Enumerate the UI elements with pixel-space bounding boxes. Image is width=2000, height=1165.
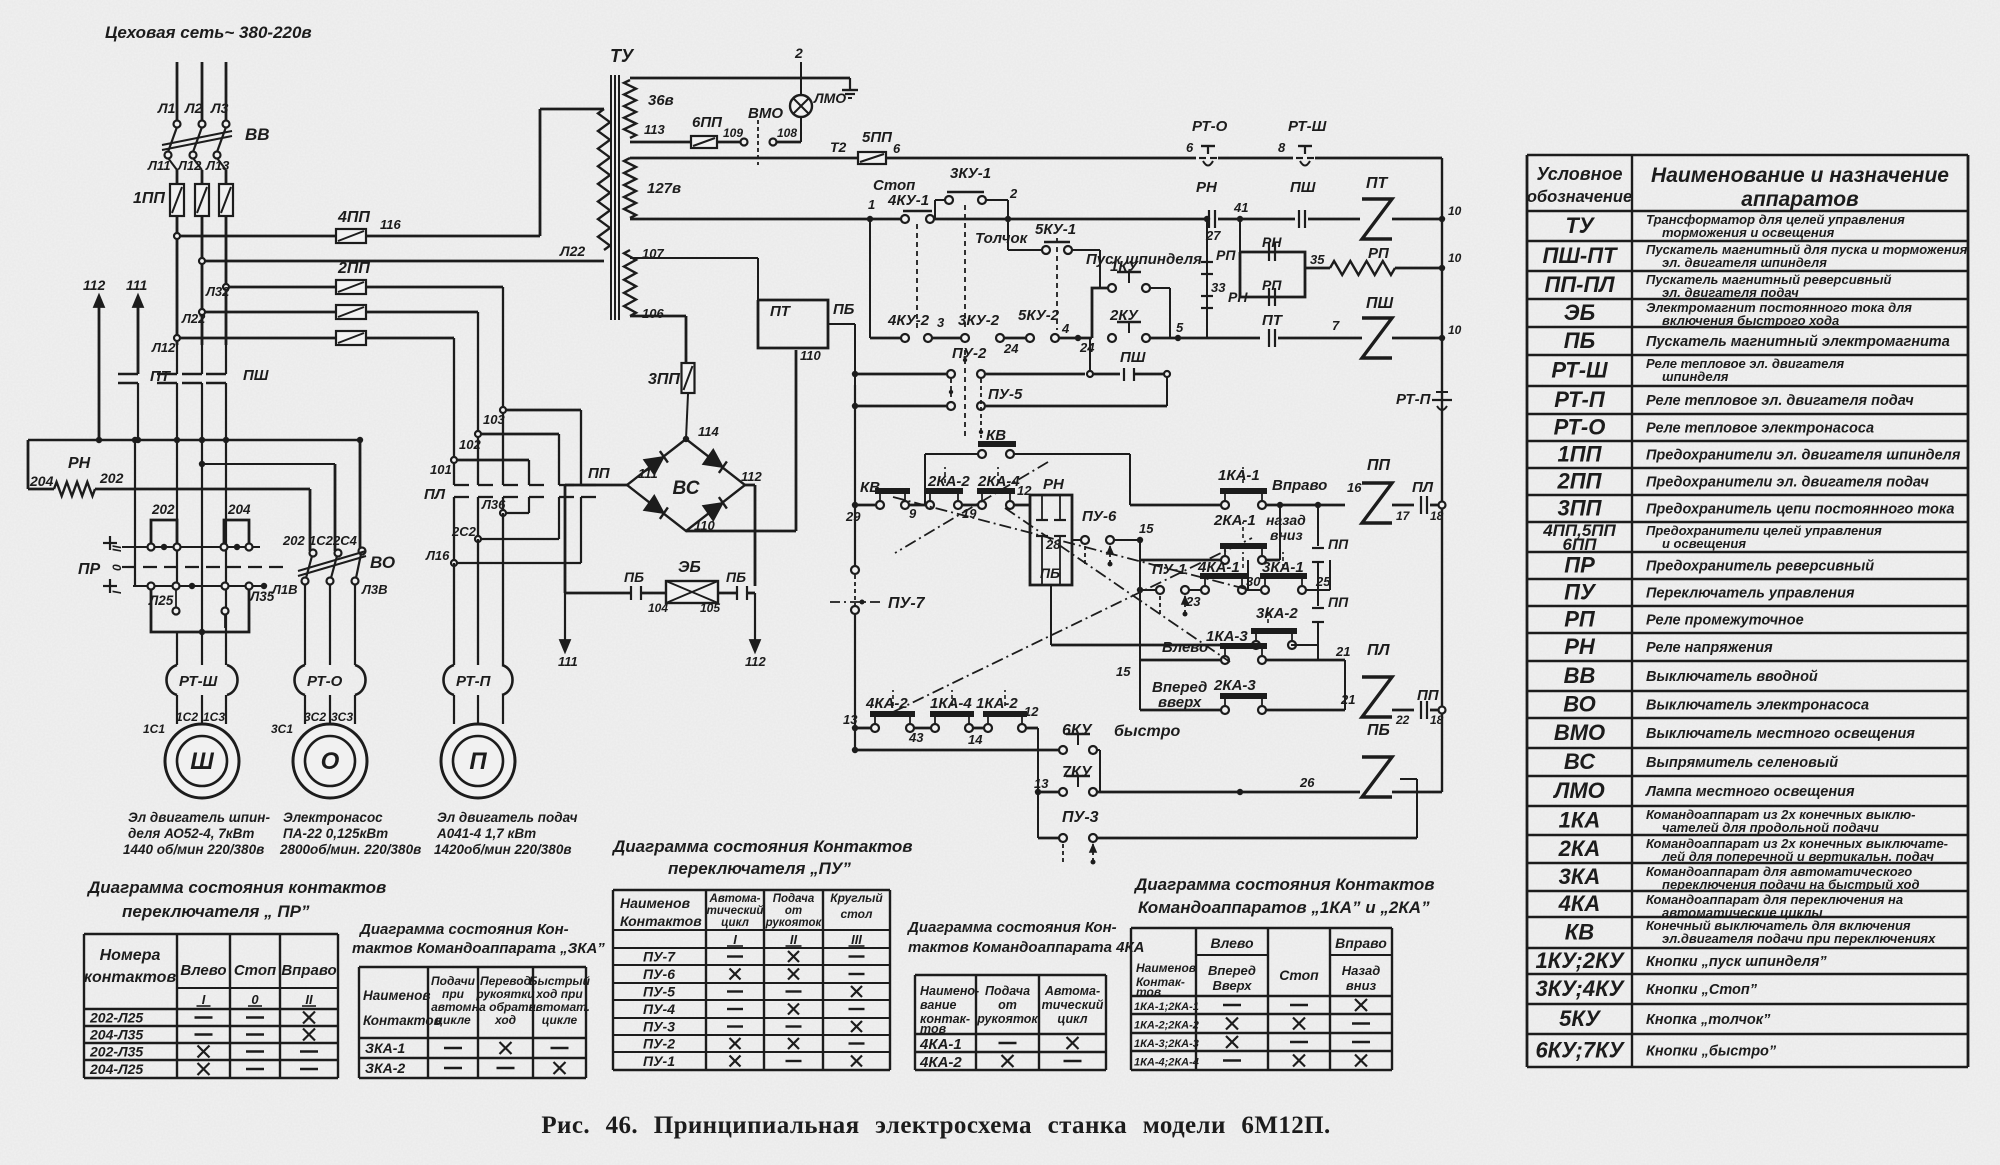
- svg-text:РТ-П: РТ-П: [1554, 387, 1606, 412]
- svg-text:43: 43: [908, 730, 924, 745]
- svg-text:Быстрый: Быстрый: [529, 974, 591, 988]
- svg-text:Л11: Л11: [147, 158, 170, 173]
- svg-text:204-Л25: 204-Л25: [89, 1061, 143, 1077]
- svg-text:переключателя „ПУ”: переключателя „ПУ”: [668, 859, 851, 878]
- svg-text:17: 17: [1396, 509, 1411, 523]
- svg-text:ПА-22 0,125кВт: ПА-22 0,125кВт: [283, 826, 388, 841]
- svg-text:1КА-1: 1КА-1: [1218, 467, 1260, 484]
- svg-text:назад: назад: [1266, 512, 1306, 528]
- svg-text:202: 202: [282, 533, 305, 548]
- svg-text:тический: тический: [1042, 998, 1104, 1012]
- svg-text:ВО: ВО: [1563, 692, 1595, 717]
- svg-text:стол: стол: [841, 907, 874, 921]
- svg-text:Предохранители эл. двигателя: Предохранители эл. двигателя подач: [1646, 475, 1929, 491]
- svg-text:I: I: [202, 992, 206, 1007]
- svg-text:112: 112: [745, 654, 766, 669]
- svg-text:Контактов: Контактов: [620, 913, 702, 929]
- svg-text:рукояток: рукояток: [765, 917, 823, 929]
- svg-text:ПП: ПП: [588, 465, 611, 482]
- svg-text:ПШ-ПТ: ПШ-ПТ: [1543, 243, 1619, 268]
- svg-text:1КА: 1КА: [1559, 808, 1601, 833]
- svg-text:ПУ-4: ПУ-4: [643, 1001, 675, 1017]
- svg-text:Стоп: Стоп: [234, 962, 276, 979]
- svg-text:204: 204: [29, 473, 54, 489]
- svg-text:РТ-О: РТ-О: [1192, 118, 1228, 135]
- svg-text:Наименование и назначение: Наименование и назначение: [1651, 164, 1949, 187]
- svg-text:1С3: 1С3: [203, 710, 225, 724]
- svg-text:ПУ-6: ПУ-6: [643, 966, 675, 982]
- svg-text:5: 5: [1176, 320, 1184, 335]
- svg-text:РН: РН: [1043, 476, 1065, 493]
- svg-text:II: II: [790, 932, 798, 947]
- svg-text:ЗКА-2: ЗКА-2: [365, 1060, 405, 1076]
- svg-text:3КА: 3КА: [1559, 864, 1601, 889]
- svg-text:0: 0: [251, 992, 259, 1007]
- svg-text:1С2: 1С2: [309, 533, 334, 548]
- svg-text:Выключатель электронасоса: Выключатель электронасоса: [1646, 698, 1869, 714]
- svg-text:Подача: Подача: [773, 893, 815, 905]
- svg-text:111: 111: [126, 277, 147, 293]
- svg-text:114: 114: [698, 424, 719, 439]
- svg-text:Переключатель управления: Переключатель управления: [1646, 586, 1855, 602]
- svg-text:при: при: [442, 987, 465, 1001]
- svg-text:21: 21: [1340, 692, 1355, 707]
- svg-text:2ПП: 2ПП: [337, 260, 370, 277]
- svg-text:ПУ-6: ПУ-6: [1082, 508, 1117, 525]
- svg-text:7: 7: [1332, 318, 1340, 333]
- svg-text:27: 27: [1205, 228, 1221, 243]
- svg-text:Кнопка „толчок”: Кнопка „толчок”: [1646, 1012, 1771, 1028]
- svg-text:ПУ-3: ПУ-3: [643, 1019, 675, 1035]
- svg-text:вание: вание: [920, 998, 957, 1012]
- svg-text:1С1: 1С1: [143, 722, 165, 736]
- svg-text:Наимено-: Наимено-: [920, 984, 979, 998]
- svg-text:ВВ: ВВ: [1564, 663, 1596, 688]
- svg-text:Реле тепловое электронасоса: Реле тепловое электронасоса: [1646, 421, 1874, 437]
- svg-text:Эл двигатель подач: Эл двигатель подач: [437, 810, 578, 825]
- svg-text:Л35: Л35: [249, 589, 275, 604]
- svg-text:2800об/мин. 220/380в: 2800об/мин. 220/380в: [279, 842, 421, 857]
- svg-text:4КА-2: 4КА-2: [865, 695, 908, 712]
- svg-text:Л22: Л22: [181, 311, 206, 326]
- svg-text:цикл: цикл: [1057, 1012, 1087, 1026]
- svg-text:Кнопки „пуск шпинделя”: Кнопки „пуск шпинделя”: [1646, 954, 1827, 970]
- svg-text:Л3В: Л3В: [361, 582, 388, 597]
- svg-text:ПУ-7: ПУ-7: [888, 595, 926, 612]
- svg-text:ПЛ: ПЛ: [1412, 479, 1434, 496]
- svg-text:109: 109: [723, 126, 743, 140]
- svg-text:Л32: Л32: [205, 284, 230, 299]
- svg-text:Условное: Условное: [1536, 164, 1622, 184]
- svg-text:ВВ: ВВ: [245, 125, 270, 144]
- svg-text:111: 111: [558, 654, 578, 669]
- svg-text:аппаратов: аппаратов: [1741, 188, 1859, 211]
- svg-text:ПУ-3: ПУ-3: [1062, 809, 1099, 826]
- svg-text:3КА-2: 3КА-2: [1256, 605, 1298, 622]
- svg-text:II: II: [305, 992, 313, 1007]
- svg-text:автом.: автом.: [431, 1000, 475, 1014]
- svg-text:3КУ-1: 3КУ-1: [950, 165, 991, 182]
- svg-text:18: 18: [1430, 509, 1444, 523]
- svg-text:9: 9: [909, 506, 917, 521]
- svg-text:ПП-ПЛ: ПП-ПЛ: [1545, 272, 1616, 297]
- svg-text:Рис. 46. Принципиальная электр: Рис. 46. Принципиальная электросхема ста…: [541, 1112, 1330, 1139]
- svg-text:5КУ: 5КУ: [1559, 1006, 1602, 1031]
- svg-text:16: 16: [1347, 480, 1362, 495]
- svg-text:ТУ: ТУ: [1565, 213, 1595, 238]
- svg-text:ПУ-2: ПУ-2: [952, 345, 987, 362]
- svg-text:ПТ: ПТ: [150, 368, 172, 385]
- svg-text:Выпрямитель селеновый: Выпрямитель селеновый: [1646, 755, 1838, 771]
- svg-text:Л1В: Л1В: [271, 582, 298, 597]
- svg-text:РТ-О: РТ-О: [307, 673, 343, 690]
- svg-text:1КА-2: 1КА-2: [976, 695, 1018, 712]
- svg-text:Перевод: Перевод: [480, 974, 531, 988]
- svg-text:4КА-2: 4КА-2: [919, 1054, 962, 1071]
- svg-text:КВ: КВ: [1565, 920, 1595, 945]
- svg-text:Цеховая сеть~ 380-220в: Цеховая сеть~ 380-220в: [105, 23, 312, 42]
- svg-text:1: 1: [868, 197, 875, 212]
- svg-text:ПБ: ПБ: [833, 301, 855, 318]
- svg-text:111: 111: [638, 466, 658, 481]
- svg-text:5КУ-1: 5КУ-1: [1035, 221, 1076, 238]
- svg-text:2КА-3: 2КА-3: [1213, 677, 1256, 694]
- svg-text:ПТ: ПТ: [770, 303, 792, 320]
- svg-text:4КУ-2: 4КУ-2: [887, 312, 930, 329]
- svg-text:Вправо: Вправо: [1272, 477, 1327, 494]
- svg-text:РТ-Ш: РТ-Ш: [179, 673, 218, 690]
- svg-text:вниз: вниз: [1270, 527, 1303, 543]
- svg-text:тактов Командоаппарата 4КА: тактов Командоаппарата 4КА: [908, 939, 1145, 956]
- svg-text:Л3: Л3: [210, 100, 229, 116]
- svg-text:Л16: Л16: [425, 548, 450, 563]
- svg-text:торможения и освещения: торможения и освещения: [1662, 225, 1835, 240]
- svg-text:24: 24: [1003, 341, 1019, 356]
- svg-text:Диаграмма состояния Контакто: Диаграмма состояния Контактов: [1133, 875, 1435, 894]
- svg-text:Реле напряжения: Реле напряжения: [1646, 640, 1773, 656]
- svg-text:и освещения: и освещения: [1662, 536, 1746, 551]
- svg-text:ПУ-1: ПУ-1: [1152, 561, 1186, 578]
- svg-text:РН: РН: [68, 455, 91, 472]
- svg-text:Наименов: Наименов: [1136, 961, 1196, 975]
- svg-text:1КА-4;2КА-4: 1КА-4;2КА-4: [1134, 1057, 1199, 1069]
- svg-text:ЭБ: ЭБ: [678, 559, 701, 576]
- svg-text:1КУ;2КУ: 1КУ;2КУ: [1535, 948, 1625, 973]
- svg-text:Ш: Ш: [190, 748, 214, 775]
- svg-text:102: 102: [459, 437, 481, 452]
- svg-text:Автома-: Автома-: [1044, 984, 1100, 998]
- svg-text:1КА-3;2КА-3: 1КА-3;2КА-3: [1134, 1038, 1199, 1050]
- svg-text:202-Л25: 202-Л25: [89, 1010, 143, 1026]
- svg-text:от: от: [785, 905, 802, 917]
- svg-text:Вправо: Вправо: [1335, 935, 1387, 951]
- svg-text:РТ-П: РТ-П: [456, 673, 492, 690]
- svg-text:12: 12: [1024, 704, 1039, 719]
- svg-text:1ПП: 1ПП: [1558, 442, 1603, 467]
- svg-text:202: 202: [99, 470, 124, 486]
- svg-text:Реле тепловое эл. двигателя: Реле тепловое эл. двигателя подач: [1646, 393, 1914, 409]
- svg-text:Наименов: Наименов: [363, 988, 431, 1003]
- svg-text:Влево: Влево: [1210, 935, 1254, 951]
- svg-text:Эл двигатель шпин-: Эл двигатель шпин-: [128, 810, 270, 825]
- svg-text:26: 26: [1299, 775, 1315, 790]
- svg-text:2: 2: [1009, 186, 1018, 201]
- svg-text:ПЛ: ПЛ: [424, 486, 446, 503]
- svg-text:III: III: [851, 932, 862, 947]
- svg-text:Кнопки „Стоп”: Кнопки „Стоп”: [1646, 982, 1758, 998]
- svg-text:22: 22: [1395, 713, 1410, 727]
- svg-text:41: 41: [1233, 200, 1248, 215]
- svg-text:Наименов: Наименов: [620, 895, 691, 911]
- svg-text:РТ-Ш: РТ-Ш: [1551, 358, 1608, 383]
- svg-text:6КУ;7КУ: 6КУ;7КУ: [1535, 1038, 1625, 1063]
- svg-text:деля АО52-4, 7кВт: деля АО52-4, 7кВт: [128, 826, 254, 841]
- svg-text:127в: 127в: [647, 180, 681, 197]
- svg-text:2ПП: 2ПП: [1557, 469, 1603, 494]
- svg-text:I: I: [733, 932, 737, 947]
- svg-text:Л12: Л12: [151, 340, 176, 355]
- svg-text:108: 108: [777, 126, 797, 140]
- svg-text:Выключатель вводной: Выключатель вводной: [1646, 669, 1818, 685]
- svg-text:202: 202: [151, 502, 175, 517]
- svg-text:Л1: Л1: [157, 100, 176, 116]
- svg-text:Выключатель местного освещен: Выключатель местного освещения: [1646, 726, 1915, 742]
- svg-text:ПБ: ПБ: [1564, 328, 1595, 353]
- svg-text:Л36: Л36: [481, 497, 506, 512]
- svg-text:104: 104: [648, 601, 668, 615]
- svg-text:Подачи: Подачи: [431, 974, 476, 988]
- svg-text:эл. двигателя шпинделя: эл. двигателя шпинделя: [1662, 255, 1827, 270]
- svg-text:Диаграмма состояния Кон-: Диаграмма состояния Кон-: [906, 919, 1117, 936]
- svg-text:II: II: [110, 545, 124, 552]
- svg-text:1КА-4: 1КА-4: [930, 695, 972, 712]
- svg-text:Вперед: Вперед: [1208, 963, 1256, 978]
- svg-text:6: 6: [893, 141, 901, 156]
- svg-text:Подача: Подача: [985, 984, 1030, 998]
- svg-text:Лампа местного освещения: Лампа местного освещения: [1645, 784, 1855, 800]
- svg-text:116: 116: [380, 217, 401, 232]
- svg-text:4КУ-1: 4КУ-1: [887, 192, 929, 209]
- svg-text:Л22: Л22: [559, 243, 585, 259]
- svg-text:ПТ: ПТ: [1262, 312, 1284, 329]
- svg-text:0: 0: [110, 564, 124, 571]
- svg-text:2КА-1: 2КА-1: [1213, 512, 1256, 529]
- svg-text:ВО: ВО: [370, 553, 395, 572]
- svg-text:ПП: ПП: [1328, 536, 1349, 552]
- svg-text:1440 об/мин 220/380в: 1440 об/мин 220/380в: [123, 842, 264, 857]
- svg-text:РТ-О: РТ-О: [1554, 415, 1606, 440]
- svg-text:ПШ: ПШ: [243, 367, 269, 384]
- svg-text:вниз: вниз: [1346, 978, 1377, 993]
- svg-text:ход: ход: [494, 1013, 516, 1027]
- svg-text:101: 101: [430, 462, 452, 477]
- svg-text:ПШ: ПШ: [1120, 349, 1146, 366]
- svg-text:ПУ: ПУ: [1564, 580, 1597, 605]
- svg-text:от: от: [998, 998, 1017, 1012]
- svg-text:Вправо: Вправо: [281, 962, 336, 979]
- svg-text:36в: 36в: [648, 92, 674, 109]
- svg-text:106: 106: [642, 306, 664, 321]
- svg-text:25: 25: [1315, 574, 1331, 589]
- svg-text:13: 13: [1034, 776, 1049, 791]
- svg-text:ЗКА-1: ЗКА-1: [365, 1040, 405, 1056]
- svg-text:8: 8: [1278, 140, 1286, 155]
- svg-text:1С2: 1С2: [176, 710, 198, 724]
- svg-text:ПУ-7: ПУ-7: [643, 949, 676, 965]
- svg-text:Т2: Т2: [830, 139, 847, 155]
- svg-text:4: 4: [1061, 321, 1070, 336]
- svg-text:ПБ: ПБ: [1367, 722, 1390, 739]
- svg-text:2: 2: [794, 45, 803, 61]
- svg-text:Электронасос: Электронасос: [283, 810, 383, 825]
- svg-text:Диаграмма состояния Контакто: Диаграмма состояния Контактов: [611, 837, 913, 856]
- svg-text:ЭБ: ЭБ: [1564, 300, 1595, 325]
- svg-text:ПУ-5: ПУ-5: [643, 984, 675, 1000]
- svg-text:переключателя „ ПР”: переключателя „ ПР”: [122, 902, 310, 921]
- svg-text:29: 29: [845, 509, 861, 524]
- svg-text:3ПП: 3ПП: [1558, 496, 1603, 521]
- svg-text:3: 3: [937, 315, 945, 330]
- svg-text:ПР: ПР: [78, 561, 101, 578]
- svg-text:А041-4 1,7 кВт: А041-4 1,7 кВт: [436, 826, 536, 841]
- svg-text:ПТ: ПТ: [1366, 175, 1389, 192]
- svg-text:3С2: 3С2: [304, 710, 326, 724]
- svg-text:3С3: 3С3: [331, 710, 353, 724]
- svg-text:ВМО: ВМО: [748, 105, 783, 122]
- svg-text:Предохранитель реверсивный: Предохранитель реверсивный: [1646, 559, 1874, 575]
- svg-text:Реле промежуточное: Реле промежуточное: [1646, 613, 1804, 629]
- svg-text:шпинделя: шпинделя: [1662, 369, 1729, 384]
- svg-text:Командоаппаратов „1КА” и „2К: Командоаппаратов „1КА” и „2КА”: [1138, 898, 1430, 917]
- svg-text:ВМО: ВМО: [1554, 720, 1605, 745]
- svg-text:35: 35: [1310, 252, 1325, 267]
- svg-text:ПУ-2: ПУ-2: [643, 1036, 675, 1052]
- svg-text:РН: РН: [1262, 234, 1282, 250]
- svg-text:5КУ-2: 5КУ-2: [1018, 307, 1060, 324]
- svg-text:быстро: быстро: [1114, 723, 1180, 740]
- svg-text:112: 112: [741, 469, 762, 484]
- svg-text:202-Л35: 202-Л35: [89, 1044, 143, 1060]
- svg-text:ПП: ПП: [1328, 594, 1349, 610]
- svg-text:Круглый: Круглый: [830, 891, 883, 905]
- svg-text:105: 105: [700, 601, 720, 615]
- svg-text:О: О: [321, 748, 340, 775]
- svg-text:РП: РП: [1262, 277, 1282, 293]
- svg-text:РТ-Ш: РТ-Ш: [1288, 118, 1327, 135]
- svg-text:ПШ: ПШ: [1366, 295, 1394, 312]
- svg-text:ЛМО: ЛМО: [813, 90, 846, 106]
- svg-text:ТУ: ТУ: [610, 46, 635, 66]
- svg-text:13: 13: [843, 712, 858, 727]
- svg-text:Стоп: Стоп: [873, 177, 915, 194]
- svg-text:33: 33: [1211, 280, 1226, 295]
- svg-text:Кнопки „быстро”: Кнопки „быстро”: [1646, 1044, 1777, 1060]
- svg-text:5ПП: 5ПП: [862, 129, 893, 146]
- svg-text:1КА-2;2КА-2: 1КА-2;2КА-2: [1134, 1020, 1199, 1032]
- svg-text:ЛМО: ЛМО: [1552, 778, 1605, 803]
- svg-text:1КА-1;2КА-1: 1КА-1;2КА-1: [1134, 1001, 1199, 1013]
- svg-text:Пускатель магнитный электром: Пускатель магнитный электромагнита: [1646, 334, 1950, 350]
- svg-text:18: 18: [1430, 713, 1444, 727]
- svg-text:Назад: Назад: [1342, 963, 1381, 978]
- svg-text:Толчок: Толчок: [975, 230, 1029, 247]
- svg-text:2КА-2: 2КА-2: [927, 473, 970, 490]
- svg-text:рукоятки: рукоятки: [475, 987, 535, 1001]
- svg-text:ВС: ВС: [1564, 749, 1596, 774]
- svg-text:3С1: 3С1: [271, 722, 293, 736]
- svg-text:3КУ-2: 3КУ-2: [958, 312, 1000, 329]
- svg-text:ПБ: ПБ: [726, 569, 746, 585]
- svg-text:14: 14: [968, 732, 983, 747]
- svg-text:ПБ: ПБ: [1040, 565, 1060, 581]
- svg-text:4КА-1: 4КА-1: [919, 1036, 962, 1053]
- svg-text:112: 112: [83, 277, 106, 293]
- svg-text:21: 21: [1335, 644, 1350, 659]
- svg-text:2С2: 2С2: [451, 524, 477, 539]
- svg-text:чателей для продольной под: чателей для продольной подачи: [1662, 820, 1879, 835]
- svg-text:Вверх: Вверх: [1213, 978, 1253, 993]
- svg-text:204: 204: [227, 502, 251, 517]
- svg-text:тактов Командоаппарата „ЗКА”: тактов Командоаппарата „ЗКА”: [352, 940, 605, 957]
- svg-text:113: 113: [644, 122, 665, 137]
- svg-text:2КА: 2КА: [1558, 836, 1601, 861]
- svg-text:цикле: цикле: [435, 1013, 471, 1027]
- svg-text:110: 110: [800, 348, 821, 363]
- svg-text:ПБ: ПБ: [624, 569, 644, 585]
- svg-text:103: 103: [483, 412, 505, 427]
- svg-text:15: 15: [1116, 664, 1131, 679]
- svg-text:6ПП: 6ПП: [692, 114, 723, 131]
- svg-text:Диаграмма состояния Кон-: Диаграмма состояния Кон-: [358, 921, 569, 938]
- svg-text:2С4: 2С4: [332, 533, 358, 548]
- svg-text:204-Л35: 204-Л35: [89, 1027, 143, 1043]
- svg-text:1ПП: 1ПП: [133, 190, 165, 207]
- svg-text:Номера: Номера: [100, 947, 161, 964]
- svg-text:Стоп: Стоп: [1279, 967, 1319, 983]
- svg-text:ВС: ВС: [673, 478, 700, 499]
- svg-text:контактов: контактов: [84, 969, 177, 986]
- svg-text:ПУ-1: ПУ-1: [643, 1053, 675, 1069]
- svg-text:РП: РП: [1564, 607, 1596, 632]
- svg-text:РТ-П: РТ-П: [1396, 391, 1432, 408]
- svg-text:Автома-: Автома-: [709, 893, 761, 905]
- svg-text:тический: тический: [707, 905, 764, 917]
- svg-text:6: 6: [1186, 140, 1194, 155]
- svg-text:Диаграмма состояния контакт: Диаграмма состояния контактов: [86, 878, 386, 897]
- svg-text:Влево: Влево: [180, 962, 226, 979]
- svg-text:ПУ-5: ПУ-5: [988, 386, 1023, 403]
- svg-text:П: П: [469, 748, 487, 775]
- svg-text:цикл: цикл: [721, 917, 749, 929]
- svg-text:Пуск шпинделя: Пуск шпинделя: [1086, 251, 1202, 268]
- svg-text:вверх: вверх: [1158, 694, 1202, 711]
- svg-text:15: 15: [1139, 521, 1154, 536]
- svg-text:1КА-3: 1КА-3: [1206, 628, 1248, 645]
- svg-text:ПЛ: ПЛ: [1367, 642, 1391, 659]
- svg-text:24: 24: [1079, 340, 1095, 355]
- svg-text:Предохранители эл. двигателя: Предохранители эл. двигателя шпинделя: [1646, 448, 1961, 464]
- svg-text:РН: РН: [1564, 634, 1596, 659]
- svg-text:цикле: цикле: [542, 1013, 578, 1027]
- svg-text:1420об/мин 220/380в: 1420об/мин 220/380в: [434, 842, 571, 857]
- svg-text:РН: РН: [1196, 179, 1218, 196]
- svg-text:РП: РП: [1368, 245, 1390, 262]
- svg-text:10: 10: [1448, 251, 1462, 265]
- svg-text:автомат.: автомат.: [529, 1000, 590, 1014]
- svg-text:Контактов: Контактов: [363, 1013, 442, 1028]
- svg-text:3КУ;4КУ: 3КУ;4КУ: [1535, 976, 1625, 1001]
- svg-text:РП: РП: [1216, 247, 1236, 263]
